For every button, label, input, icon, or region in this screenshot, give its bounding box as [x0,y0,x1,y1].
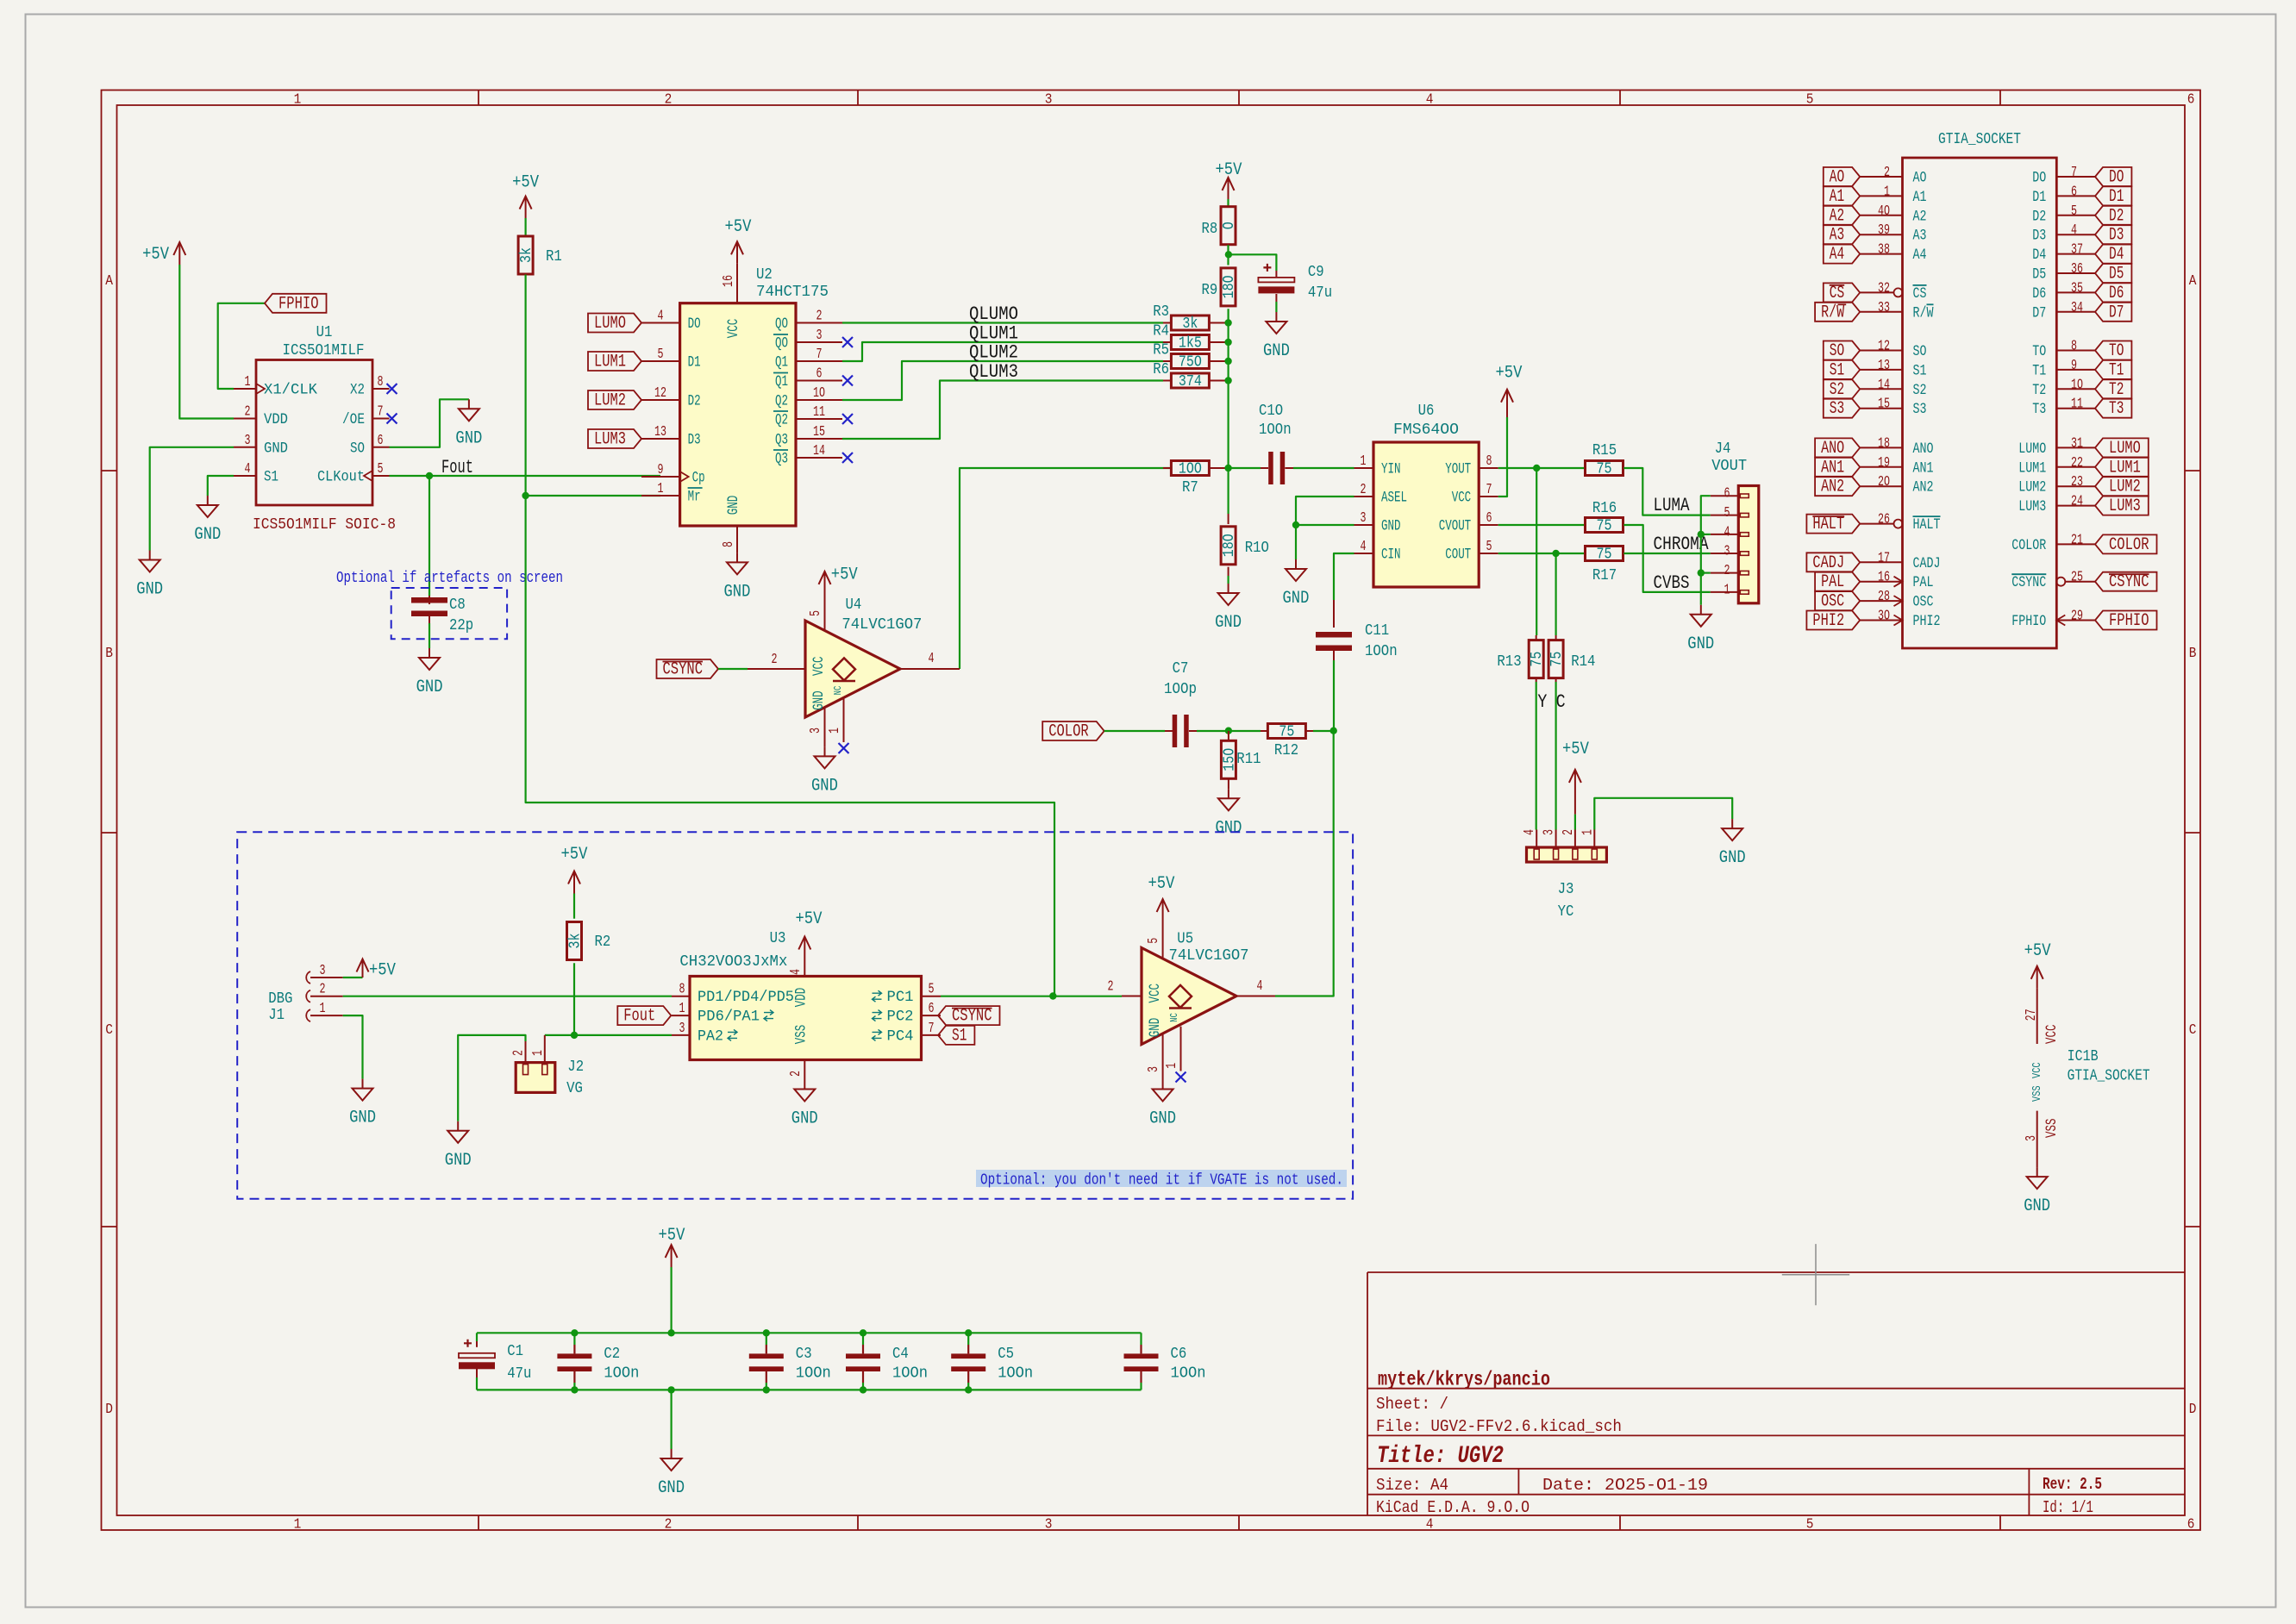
svg-text:PD6/PA1: PD6/PA1 [698,1009,760,1026]
label C3 value [796,1365,831,1383]
svg-text:FMS64OO: FMS64OO [1393,422,1459,439]
net label QLUM2 [969,342,1018,364]
svg-text:FPHIO: FPHIO [2109,611,2149,631]
ic U5 pin3 GND [1146,1034,1163,1080]
wire C11 to R12 node [1333,660,1335,731]
svg-text:U1: U1 [316,324,333,341]
svg-text:6: 6 [929,1001,935,1017]
wire YOUT to R13 [1536,468,1537,635]
svg-text:LUM3: LUM3 [594,430,626,450]
wire +5V to R2 [573,894,575,919]
svg-text:R2: R2 [595,934,611,951]
svg-text:COUT: COUT [1445,547,1471,564]
connector J4 value [1711,458,1747,475]
svg-text:4: 4 [658,309,664,325]
ic U2 GND pin8 [721,496,742,553]
wire R17 to J4 pin3 [1623,553,1710,554]
svg-text:Q2: Q2 [775,412,788,429]
svg-text:3: 3 [1542,829,1558,835]
hier label CSYNC gtia right [2095,572,2157,593]
connector J4 pin 3 [1711,544,1749,560]
no-connect U2 y531 [842,453,853,463]
hier label A4 gtia [1824,245,1860,265]
ic GTIA pin 29 FPHIO [2011,609,2095,631]
svg-text:HALT: HALT [1812,515,1844,534]
svg-text:SO: SO [1913,343,1927,360]
wire J1 pin1 gnd [343,1015,363,1079]
title block size [1376,1476,1448,1495]
ic GTIA pin 16 PAL [1860,570,1933,592]
ic GTIA pin 34 D7 [2032,300,2095,322]
ic U4 pin3 GND [808,708,825,747]
svg-text:75: 75 [1597,547,1612,564]
ic GTIA pin 19 AN1 [1860,455,1933,478]
svg-text:R13: R13 [1497,653,1521,671]
connector J4 reference [1715,440,1731,458]
junction R7 out [1224,465,1231,472]
ic U3 pin 1 PD6/PA1 [672,1001,773,1026]
svg-text:8: 8 [721,541,737,547]
svg-text:+5V: +5V [369,961,396,981]
hier label A1 gtia [1824,186,1860,207]
svg-text:DO: DO [2032,170,2046,187]
svg-text:7: 7 [1486,482,1492,498]
wire R16 to J4 pin1 [1623,525,1710,592]
svg-text:47u: 47u [507,1365,531,1383]
svg-text:D3: D3 [2032,228,2046,245]
svg-text:GND: GND [349,1109,376,1128]
svg-text:1: 1 [1580,829,1596,835]
ic GTIA pin 14 S2 [1860,377,1926,399]
net label QLUM3 [969,361,1018,383]
svg-text:6: 6 [2071,184,2077,200]
svg-text:5: 5 [1146,938,1162,944]
svg-text:15: 15 [1878,397,1890,413]
svg-text:1: 1 [1164,1063,1180,1069]
ic U6 pin 3 GND [1354,510,1401,535]
net label LUMA [1654,495,1691,516]
svg-text:PC4: PC4 [887,1027,914,1045]
svg-text:LUM2: LUM2 [2018,479,2046,497]
ic U3 reference [770,930,786,947]
ic GTIA pin 35 D6 [2032,280,2095,303]
junction C3 bottom [763,1386,770,1393]
ground U6 [1283,559,1310,609]
ic U3 pin 6 PC2 [873,1001,942,1026]
ic U2 reference [756,266,773,284]
svg-text:C7: C7 [1173,660,1189,678]
svg-text:D5: D5 [2109,265,2124,284]
svg-text:LUMA: LUMA [1654,495,1691,516]
title block id [2043,1498,2093,1517]
hier label LUM0 gtia right [2095,438,2149,459]
junction R8 R9 C9 [1225,251,1232,258]
svg-text:PAL: PAL [1821,572,1844,592]
wire U6 gnd down [1295,525,1297,559]
svg-text:D6: D6 [2109,284,2124,303]
svg-text:D5: D5 [2032,266,2046,284]
hier label D5 gtia right [2095,264,2131,284]
connector J4 body [1738,486,1759,603]
svg-text:SO: SO [1830,341,1844,361]
resistor R6 [1153,361,1228,390]
connector J4 pin 2 [1711,563,1749,579]
ground U5 [1149,1080,1176,1129]
ic GTIA pin 5 D2 [2032,203,2095,225]
wire Y to J3 pin4 [1536,682,1537,830]
svg-text:1OOn: 1OOn [1259,422,1292,439]
wire U6 ASEL gnd [1296,497,1354,525]
hier label T1 gtia right [2095,360,2131,381]
net label CHROMA [1654,534,1710,555]
svg-text:4: 4 [1426,1517,1434,1533]
wire J2 pin2 gnd [458,1035,525,1121]
hier label D7 gtia right [2095,303,2131,323]
ground J2 [445,1121,472,1171]
ic U1 pin 7 /OE [342,404,390,429]
junction R5 out [1224,358,1231,365]
hier label COLOR [1042,721,1104,742]
svg-text:12: 12 [1878,339,1890,355]
ic U6 pin 2 ASEL [1354,482,1408,507]
svg-text:1: 1 [245,374,251,390]
svg-text:D1: D1 [2032,189,2046,206]
svg-text:LUMO: LUMO [2018,440,2046,458]
svg-text:U5: U5 [1177,930,1193,947]
hier label A0 gtia [1824,167,1860,188]
ic GTIA pin 36 D5 [2032,261,2095,284]
svg-text:mytek/kkrys/pancio: mytek/kkrys/pancio [1378,1369,1550,1391]
resistor R17 [1586,547,1623,585]
ic GTIA pin 8 T0 [2032,339,2095,361]
ic GTIA pin 39 A3 [1860,222,1926,245]
svg-text:Mr: Mr [688,489,701,506]
svg-text:U6: U6 [1418,403,1435,420]
svg-text:19: 19 [1878,455,1890,472]
ic U2 pin 2 Q0 [775,309,842,334]
junction C7 R11 [1225,728,1232,734]
svg-text:QO: QO [775,315,788,333]
svg-text:Cp: Cp [692,470,705,487]
capacitor C8 [411,596,447,623]
resistor R11 [1221,731,1261,789]
wire +5V to U1 VDD [179,265,234,419]
svg-text:NC: NC [1168,1013,1180,1022]
ic U1 pin 8 X2 [350,374,390,399]
svg-text:OSC: OSC [1913,594,1934,611]
junction C4 top [860,1329,866,1336]
junction R4 out [1224,339,1231,346]
svg-text:PC2: PC2 [887,1009,914,1026]
wire R9 link [1227,245,1229,265]
svg-text:13: 13 [654,424,666,440]
label C8 [449,597,466,614]
svg-text:S3: S3 [1830,399,1844,419]
svg-text:Fout: Fout [623,1007,655,1027]
svg-text:C: C [2189,1022,2197,1039]
svg-text:VCC: VCC [2043,1025,2061,1045]
hier label S1 gtia [1824,360,1860,381]
connector J3 body [1527,847,1607,862]
ic U2 pin 6 Q1 [773,366,842,391]
svg-text:6: 6 [1724,486,1730,503]
svg-text:3: 3 [320,963,326,979]
svg-text:AN1: AN1 [1821,458,1844,478]
svg-text:5: 5 [1806,92,1814,109]
svg-text:LUMO: LUMO [594,314,626,334]
svg-text:35: 35 [2071,280,2083,297]
svg-text:R/W: R/W [1821,303,1844,322]
svg-text:D7: D7 [2032,304,2046,322]
wire COUT [1498,553,1585,554]
wire R1 down / CSYNC net [526,275,1054,996]
ic GTIA pin 9 T1 [2032,358,2095,380]
svg-text:+5V: +5V [1496,364,1523,384]
svg-text:33: 33 [1878,300,1890,316]
ic IC1B VSS pin3 [2024,1085,2061,1167]
power +5V U1 [142,242,185,265]
label C2 value [604,1365,639,1383]
hier label T0 gtia right [2095,341,2131,362]
ic U2 VCC pin16 [721,263,742,338]
ic U5 NC text [1168,1013,1180,1022]
svg-text:15: 15 [813,424,825,440]
svg-text:+5V: +5V [561,845,588,865]
hier label PHI2 gtia [1806,611,1860,632]
svg-text:4: 4 [1426,92,1434,109]
wire J3 pin1 gnd [1594,798,1732,830]
svg-text:75O: 75O [1179,354,1202,372]
ground R10 [1215,584,1242,633]
net label QLUM1 [969,323,1018,345]
wire U1 S1 to ground [208,476,234,496]
wire U6 VCC [1498,417,1507,497]
svg-text:GND: GND [1381,518,1401,535]
ic U3 VDD pin4 [788,953,810,1007]
svg-text:3: 3 [1146,1066,1162,1072]
hier label S0 gtia [1824,341,1860,362]
junction C3 top [763,1329,770,1336]
svg-text:X2: X2 [350,382,365,399]
svg-text:2: 2 [1724,563,1730,579]
label C8 value [449,617,473,634]
connector J4 pin 5 [1711,505,1749,522]
ground J3 [1719,819,1746,868]
ic U4 VCC text [810,657,828,677]
ic GTIA pin 28 OSC [1860,589,1933,611]
wire chroma node to U5 [1275,731,1334,996]
svg-text:11: 11 [813,404,825,421]
svg-text:ASEL: ASEL [1381,490,1407,507]
no-connect U2 y397 [842,337,853,347]
ic U2 body [680,303,796,526]
svg-text:A4: A4 [1830,245,1844,265]
wire J1 pin3 +5V [343,977,363,978]
label C5 value [998,1365,1033,1383]
svg-text:25: 25 [2071,570,2083,586]
ic GTIA pin 1 A1 [1860,184,1926,206]
svg-text:4: 4 [1257,978,1263,995]
svg-text:3k: 3k [518,247,535,263]
ic GTIA pin 15 S3 [1860,397,1926,419]
junction J4 pin4 [1698,531,1705,538]
hier label A2 gtia [1824,206,1860,226]
wire YOUT [1498,467,1585,469]
label C7 value [1164,681,1197,698]
svg-text:R17: R17 [1592,567,1617,584]
svg-text:VOUT: VOUT [1711,458,1747,475]
wire CSYNC to U4 [718,668,748,670]
svg-text:CSYNC: CSYNC [663,660,704,680]
ic U4 pin5 VCC [808,583,825,631]
hier label D2 gtia right [2095,206,2131,226]
svg-text:FPHIO: FPHIO [2011,613,2046,630]
ic GTIA body [1903,158,2057,648]
label C1 value [507,1365,531,1383]
svg-text:U4: U4 [846,597,862,614]
wire CVOUT [1498,524,1585,526]
resistor R8 [1202,207,1239,245]
note optional VGATE highlight [976,1170,1347,1187]
ic U4 open-drain glyph [833,658,855,681]
hier label PAL gtia [1815,572,1860,593]
svg-text:DO: DO [688,315,701,333]
svg-text:C5: C5 [998,1346,1014,1363]
label C11 [1365,622,1389,640]
svg-text:GTIA_SOCKET: GTIA_SOCKET [2068,1068,2150,1085]
svg-text:16: 16 [1878,570,1890,586]
ic GTIA pin 37 D4 [2032,242,2095,265]
connector J3 pin 4 [1522,829,1539,859]
ic U3 pin 7 PC4 [873,1021,942,1046]
svg-text:9: 9 [658,462,664,478]
svg-text:D2: D2 [2109,206,2124,226]
svg-text:VCC: VCC [1147,984,1164,1003]
ic GTIA pin 21 COLOR [2011,532,2095,554]
svg-text:U3: U3 [770,930,786,947]
svg-text:16: 16 [721,275,737,287]
hier label S1 at U3 [938,1026,974,1046]
svg-text:3: 3 [1045,1517,1053,1533]
svg-text:T1: T1 [2032,362,2046,379]
svg-text:2: 2 [320,982,326,998]
svg-text:4: 4 [1361,539,1367,555]
resistor R5 [1153,342,1228,372]
hier label FPHIO gtia right [2095,611,2157,632]
svg-text:+5V: +5V [1562,740,1589,759]
svg-text:Q3: Q3 [775,451,788,468]
svg-text:4: 4 [929,651,935,667]
ic GTIA pin 18 AN0 [1860,435,1933,458]
ic U6 pin 7 VCC [1452,482,1498,507]
junction Fout C8 [426,472,433,479]
svg-text:J2: J2 [567,1059,584,1076]
svg-text:Rev: 2.5: Rev: 2.5 [2043,1475,2102,1494]
net label Y [1537,691,1547,713]
ic U4 pin2 input [748,652,805,669]
svg-text:B: B [105,646,113,662]
svg-text:C6: C6 [1171,1346,1187,1363]
wire C7 to R12 [1197,730,1261,732]
ground U1 S1 [194,496,221,545]
svg-text:C9: C9 [1308,264,1324,281]
svg-text:D1: D1 [688,354,701,372]
svg-text:R1: R1 [546,248,562,265]
junction C5 top [965,1329,972,1336]
ic GTIA pin 7 D0 [2032,165,2095,187]
hier label LUM0 [588,314,641,334]
ic U2 pin 5 D1 [641,347,701,372]
connector J2 value [566,1080,583,1097]
svg-text:2: 2 [788,1071,804,1077]
svg-text:COLOR: COLOR [1048,722,1089,742]
label C7 [1173,660,1189,678]
label C11 value [1365,643,1398,660]
ic U5 pin1 NC [1164,1027,1181,1071]
svg-text:Size: A4: Size: A4 [1376,1476,1448,1495]
wire gnd stem [670,1390,672,1449]
svg-text:IC1B: IC1B [2068,1048,2099,1065]
net label CVBS [1654,572,1690,594]
ic U1 pin 3 GND [234,433,288,458]
svg-text:7: 7 [378,404,384,421]
svg-text:QLUMO: QLUMO [969,303,1018,325]
wire gnd rail [477,1389,1142,1390]
svg-text:18O: 18O [1221,534,1238,557]
ic U6 value [1393,422,1459,439]
hier label Fout [617,1006,671,1027]
wire U1 S0 to ground [390,399,469,447]
hier label HALT gtia [1806,515,1860,535]
connector J4 pin 1 [1711,582,1749,598]
svg-text:14: 14 [813,443,825,459]
svg-text:3: 3 [1361,510,1367,527]
wire C to J3 pin3 [1555,682,1556,830]
ic U1 pin 6 S0 [350,433,390,458]
svg-text:R4: R4 [1153,323,1169,340]
resistor R12 [1261,724,1313,760]
hier label COLOR gtia right [2095,534,2157,555]
connector J2 reference [567,1059,584,1076]
svg-text:D6: D6 [2032,285,2046,303]
ic IC1B reference [2068,1048,2099,1065]
note optional C8 [336,570,563,587]
svg-text:12: 12 [654,385,666,402]
svg-text:T2: T2 [2109,380,2124,400]
hier label AN2 gtia [1815,477,1860,497]
ic U6 pin 8 YOUT [1445,453,1498,478]
connector J2 body [516,1063,555,1093]
svg-text:R8: R8 [1202,221,1218,238]
svg-text:+5V: +5V [1148,874,1175,894]
svg-text:D: D [105,1402,113,1418]
svg-text:B: B [2189,646,2197,662]
svg-text:2: 2 [511,1050,528,1056]
svg-text:+5V: +5V [1216,160,1242,180]
wire J4 pin4 gnd [1701,534,1711,535]
svg-text:PHI2: PHI2 [1913,613,1941,630]
svg-text:TO: TO [2032,343,2046,360]
ic U4 NC text [832,686,844,696]
svg-text:R15: R15 [1592,442,1617,459]
title block rev [2043,1475,2102,1494]
svg-text:S2: S2 [1830,380,1844,400]
origin crosshair [1782,1244,1849,1305]
wire DBG net [343,996,672,997]
svg-text:5: 5 [808,610,824,616]
svg-text:S3: S3 [1913,401,1927,418]
svg-text:18O: 18O [1221,275,1238,298]
